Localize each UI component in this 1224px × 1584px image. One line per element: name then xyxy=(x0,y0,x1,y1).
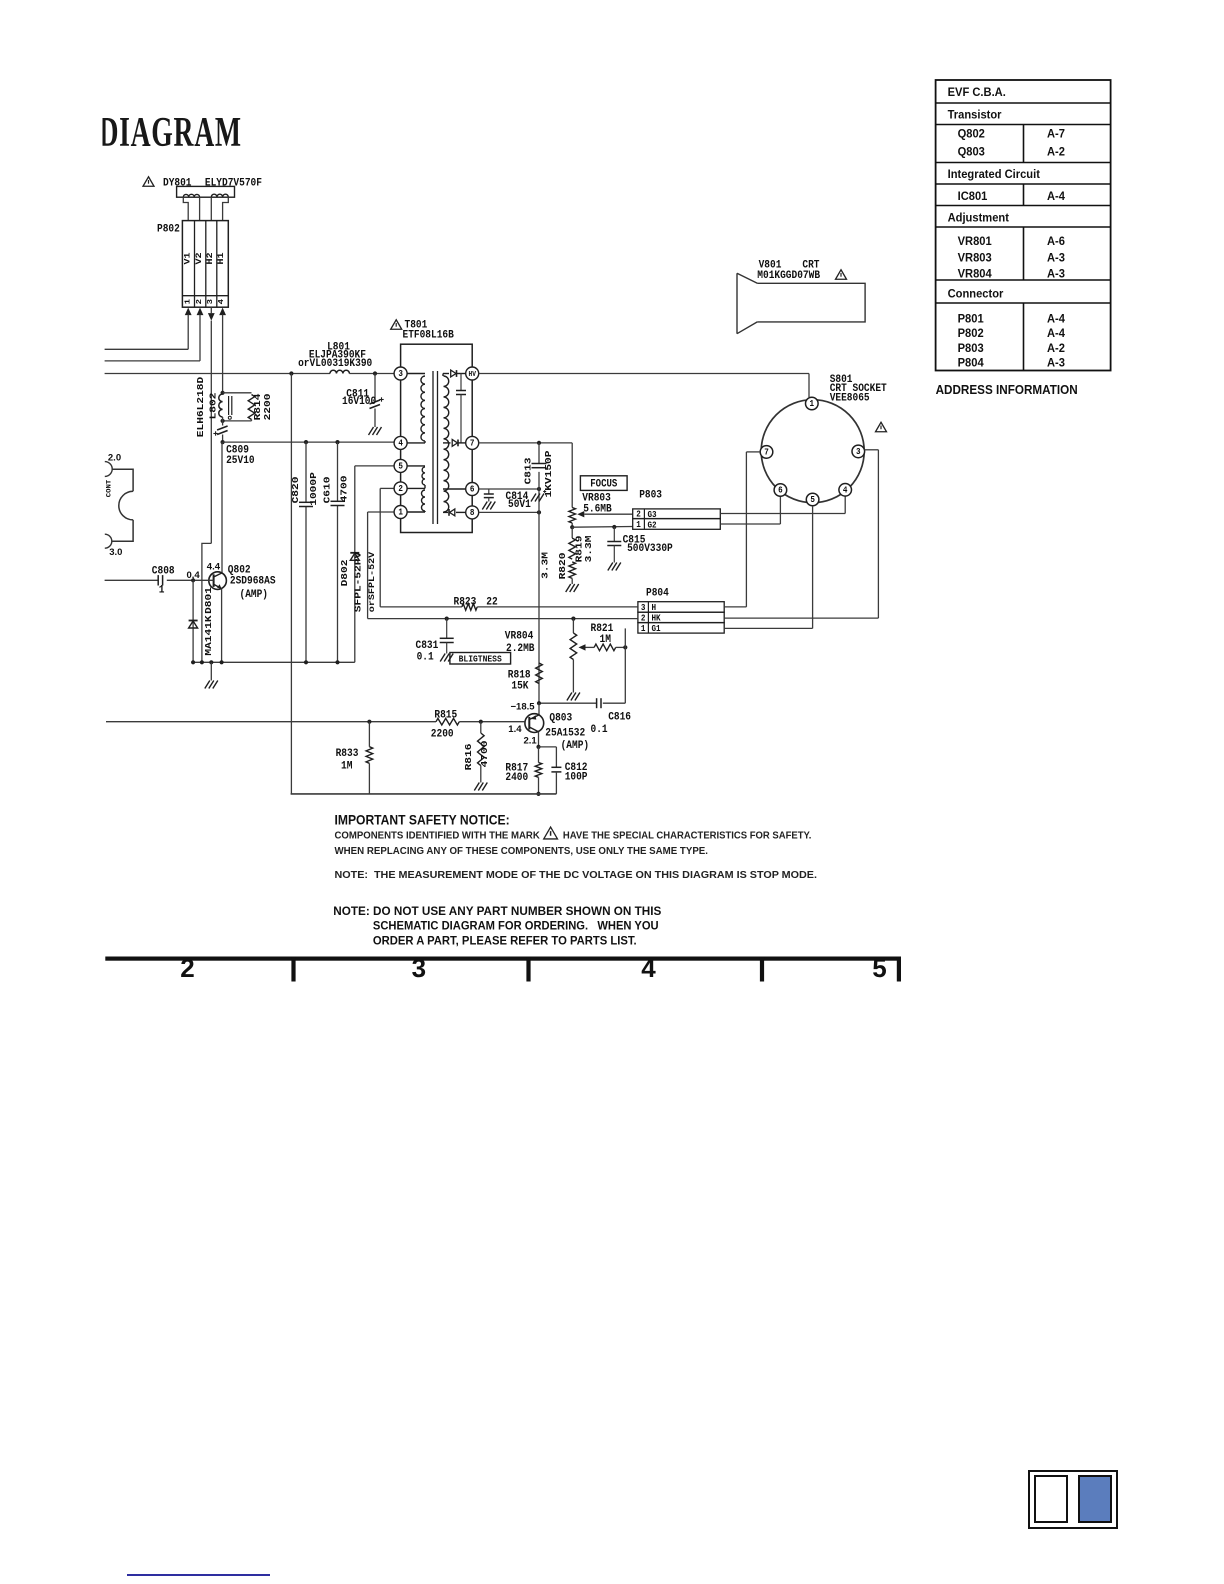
svg-text:NOTE: THE MEASUREMENT MODE OF: NOTE: THE MEASUREMENT MODE OF THE DC VOL… xyxy=(335,869,818,881)
title DIAGRAM xyxy=(94,108,242,155)
svg-text:0.1: 0.1 xyxy=(591,723,608,736)
wire P802 pin3 (H2) xyxy=(210,307,212,313)
svg-text:P803: P803 xyxy=(639,489,662,502)
svg-text:Transistor: Transistor xyxy=(948,109,1002,121)
wire P802 pin4 (H1) xyxy=(219,308,226,316)
svg-text:1: 1 xyxy=(810,400,815,410)
svg-text:G2: G2 xyxy=(648,521,657,531)
svg-text:C820: C820 xyxy=(291,477,302,504)
svg-text:16V100: 16V100 xyxy=(342,396,376,409)
svg-text:EVF C.B.A.: EVF C.B.A. xyxy=(948,87,1006,99)
wire VR803 bottom xyxy=(571,523,573,527)
T801 pin 4 xyxy=(394,436,407,449)
svg-text:3.3M: 3.3M xyxy=(540,552,551,579)
svg-text:2200: 2200 xyxy=(263,394,274,421)
socket pin 7 xyxy=(760,446,773,459)
wire C816 line xyxy=(539,702,597,704)
svg-text:C610: C610 xyxy=(322,477,333,504)
capacitor C811 electrolytic xyxy=(370,400,381,404)
page indicator outer box xyxy=(1028,1470,1118,1529)
svg-text:H: H xyxy=(652,604,657,614)
svg-text:WHEN REPLACING ANY OF THESE CO: WHEN REPLACING ANY OF THESE COMPONENTS, … xyxy=(335,846,709,857)
ruler end tick xyxy=(897,957,901,982)
svg-text:1000P: 1000P xyxy=(309,472,320,506)
svg-text:1.4: 1.4 xyxy=(508,724,522,735)
ruler bar xyxy=(105,957,901,961)
svg-text:25A1532: 25A1532 xyxy=(545,727,585,740)
svg-text:R815: R815 xyxy=(434,709,457,722)
svg-text:4: 4 xyxy=(641,953,656,983)
wire H1 to L802 xyxy=(222,374,224,393)
ground (VR804) xyxy=(567,693,572,701)
svg-text:P803: P803 xyxy=(958,342,985,354)
svg-text:A-6: A-6 xyxy=(1047,236,1066,248)
svg-text:1M: 1M xyxy=(600,634,611,647)
junction bus/down-line xyxy=(289,371,293,375)
wire collector to C812 xyxy=(539,746,557,748)
resistor R821 xyxy=(594,644,616,651)
svg-text:4: 4 xyxy=(398,439,403,449)
wire T801 pin5 line xyxy=(355,465,394,467)
svg-text:2: 2 xyxy=(636,510,641,520)
svg-text:VR803: VR803 xyxy=(958,252,993,264)
socket pin 5 xyxy=(806,493,819,506)
svg-text:8: 8 xyxy=(470,509,475,519)
svg-text:P804: P804 xyxy=(958,357,985,369)
wire P802 pin1 xyxy=(185,308,192,316)
svg-text:2: 2 xyxy=(195,299,203,304)
svg-text:H1: H1 xyxy=(216,252,226,265)
svg-text:Adjustment: Adjustment xyxy=(948,212,1009,224)
CRT V801 outline xyxy=(737,273,865,333)
svg-text:IMPORTANT SAFETY NOTICE:: IMPORTANT SAFETY NOTICE: xyxy=(335,812,510,828)
potentiometer VR804 xyxy=(572,619,574,633)
svg-text:A-3: A-3 xyxy=(1047,268,1066,280)
wire G1-R821-C816 vertical xyxy=(624,628,626,703)
wire pin7 line xyxy=(479,442,573,444)
svg-text:H2: H2 xyxy=(205,252,215,265)
diode D802 xyxy=(350,552,359,554)
svg-text:Connector: Connector xyxy=(948,288,1004,300)
svg-text:2400: 2400 xyxy=(505,771,528,784)
wire Q803 base (R815 line) xyxy=(106,721,436,723)
svg-text:A-2: A-2 xyxy=(1047,146,1065,158)
inductor L802 xyxy=(219,394,223,417)
T801 pin8 diode xyxy=(443,511,448,513)
transformer T801 box xyxy=(401,344,473,532)
svg-text:VR804: VR804 xyxy=(958,268,993,280)
svg-text:4700: 4700 xyxy=(480,741,491,768)
wire Q803 emitter xyxy=(538,703,540,715)
capacitor C820 xyxy=(305,442,307,502)
capacitor C816 xyxy=(596,698,598,708)
T801 secondary winding xyxy=(444,376,449,512)
wire bus to bottom rail xyxy=(290,374,292,794)
svg-text:R833: R833 xyxy=(336,747,359,760)
svg-text:HK: HK xyxy=(652,614,661,624)
ground (mid rail) xyxy=(210,662,212,680)
connector P803 xyxy=(633,509,721,519)
svg-text:ELYD7V570F: ELYD7V570F xyxy=(205,177,262,190)
footer blue rule xyxy=(127,1574,270,1576)
wire T801 pin1 line xyxy=(368,511,395,513)
yoke leg pin1 xyxy=(183,197,188,220)
wire G3 to pin4 xyxy=(720,513,845,515)
svg-text:R823: R823 xyxy=(454,596,477,609)
svg-text:COMPONENTS IDENTIFIED WITH THE: COMPONENTS IDENTIFIED WITH THE MARK xyxy=(335,830,541,841)
wire G1 to pin5 xyxy=(724,627,812,629)
deflection yoke DY801 box xyxy=(177,186,235,197)
wire P802 pin2 xyxy=(197,308,204,316)
svg-text:orVL00319K390: orVL00319K390 xyxy=(298,358,372,371)
ruler tick xyxy=(291,957,295,982)
svg-text:2: 2 xyxy=(641,614,646,624)
svg-text:A-2: A-2 xyxy=(1047,342,1065,354)
resistor R816 xyxy=(480,722,482,733)
svg-text:Q803: Q803 xyxy=(549,712,572,725)
resistor R817 xyxy=(538,747,540,763)
ground mark (C813) xyxy=(531,494,536,502)
svg-text:4: 4 xyxy=(843,486,848,496)
BLIGTNESS box xyxy=(450,653,511,665)
svg-text:P804: P804 xyxy=(646,587,669,600)
svg-text:5: 5 xyxy=(872,953,886,983)
CRT socket S801 xyxy=(761,400,864,503)
wire HK line xyxy=(368,618,638,620)
wire G2 to pin6 xyxy=(720,523,780,525)
svg-text:MA141K: MA141K xyxy=(203,615,214,656)
VR803 wiper arrow xyxy=(577,511,584,517)
capacitor C808 xyxy=(157,575,159,585)
socket pin 6 xyxy=(774,484,787,497)
svg-text:1M: 1M xyxy=(341,760,352,773)
capacitor C610 xyxy=(337,442,339,501)
svg-text:ORDER A PART, PLEASE REFER TO: ORDER A PART, PLEASE REFER TO PARTS LIST… xyxy=(373,935,637,947)
svg-text:1: 1 xyxy=(159,584,165,597)
svg-text:VR804: VR804 xyxy=(505,630,534,643)
svg-text:VEE8065: VEE8065 xyxy=(830,392,870,405)
svg-text:A-4: A-4 xyxy=(1047,191,1066,203)
svg-text:2.1: 2.1 xyxy=(524,735,538,746)
svg-text:BLIGTNESS: BLIGTNESS xyxy=(459,654,502,665)
svg-text:R816: R816 xyxy=(464,744,475,771)
wire pin7 to VR803 xyxy=(571,443,573,508)
IC801 partial outline xyxy=(105,462,112,477)
wire Q802 emitter xyxy=(221,589,223,663)
svg-text:D801: D801 xyxy=(203,587,214,614)
capacitor C831 xyxy=(446,619,448,639)
svg-text:HAVE THE SPECIAL CHARACTERISTI: HAVE THE SPECIAL CHARACTERISTICS FOR SAF… xyxy=(563,830,812,842)
svg-text:2: 2 xyxy=(180,953,194,983)
resistor R815 xyxy=(436,718,459,725)
svg-text:3: 3 xyxy=(641,603,646,613)
svg-text:G1: G1 xyxy=(652,625,661,635)
svg-text:A-7: A-7 xyxy=(1047,128,1065,140)
VR804 wiper arrow xyxy=(579,644,586,650)
svg-text:0,4: 0,4 xyxy=(187,570,201,581)
T801 pin6 tap xyxy=(443,488,466,490)
svg-text:50V1: 50V1 xyxy=(508,498,531,511)
transistor Q802 xyxy=(209,572,227,590)
svg-text:(AMP): (AMP) xyxy=(240,588,269,601)
svg-text:VR801: VR801 xyxy=(958,236,993,248)
T801 primary winding C xyxy=(422,490,426,511)
svg-text:1: 1 xyxy=(398,508,403,518)
svg-text:(AMP): (AMP) xyxy=(561,739,590,752)
svg-text:C816: C816 xyxy=(608,711,631,724)
potentiometer VR803 xyxy=(569,508,576,524)
svg-text:500V330P: 500V330P xyxy=(627,542,673,555)
svg-text:P802: P802 xyxy=(157,223,180,236)
svg-text:3.3M: 3.3M xyxy=(584,536,595,563)
svg-text:25V10: 25V10 xyxy=(226,454,255,467)
svg-text:6: 6 xyxy=(778,486,783,496)
svg-text:FOCUS: FOCUS xyxy=(590,478,617,490)
wire main bus xyxy=(105,373,330,375)
svg-text:100P: 100P xyxy=(565,771,588,784)
svg-text:SFPL-52PV: SFPL-52PV xyxy=(353,551,364,612)
svg-text:A-4: A-4 xyxy=(1047,313,1066,325)
T801 pin 3 xyxy=(394,367,407,380)
svg-text:2200: 2200 xyxy=(431,728,454,741)
svg-text:3: 3 xyxy=(412,953,426,983)
svg-text:V1: V1 xyxy=(182,252,192,265)
wire collector line xyxy=(221,442,223,573)
svg-text:R820: R820 xyxy=(558,553,569,580)
wire bus to C811 xyxy=(374,374,376,401)
wire mid rail xyxy=(193,661,355,663)
wire G2 link xyxy=(572,526,633,529)
socket pin 1 xyxy=(806,397,819,410)
ruler tick xyxy=(526,957,530,982)
svg-text:A-3: A-3 xyxy=(1047,357,1066,369)
svg-text:P802: P802 xyxy=(958,328,984,340)
svg-text:5.6MB: 5.6MB xyxy=(583,503,612,516)
svg-text:A-3: A-3 xyxy=(1047,252,1066,264)
svg-text:P801: P801 xyxy=(958,313,985,325)
svg-text:4700: 4700 xyxy=(339,476,350,503)
wire pin6 line xyxy=(479,488,539,490)
svg-text:SCHEMATIC DIAGRAM FOR ORDERING: SCHEMATIC DIAGRAM FOR ORDERING. WHEN YOU xyxy=(373,920,659,932)
T801 internal capacitor xyxy=(460,374,462,391)
wire H to pin7 xyxy=(724,606,746,608)
wire node line 539 xyxy=(538,443,540,464)
junction bus/C811 xyxy=(373,371,377,375)
wire T801 pin2 line xyxy=(380,487,394,489)
capacitor C815 xyxy=(613,527,615,542)
svg-text:ELH6L218D: ELH6L218D xyxy=(196,377,207,437)
ground (R820) xyxy=(566,584,571,592)
yoke leg pin3 xyxy=(210,197,212,220)
svg-text:0.1: 0.1 xyxy=(417,651,434,664)
wire HV to socket pin1 xyxy=(479,373,809,375)
svg-text:CONT: CONT xyxy=(106,480,113,497)
resistor R819 xyxy=(571,527,573,538)
svg-text:IC801: IC801 xyxy=(958,191,988,203)
svg-text:5: 5 xyxy=(810,496,815,506)
capacitor C813 xyxy=(532,463,547,465)
T801 pin 2 xyxy=(394,482,407,495)
svg-text:7: 7 xyxy=(764,448,769,458)
T801 HV diode xyxy=(443,373,449,375)
ground (R816) xyxy=(474,783,479,791)
wire R823 line xyxy=(380,606,462,608)
svg-text:C813: C813 xyxy=(523,458,534,485)
svg-text:C808: C808 xyxy=(152,565,175,578)
svg-text:NOTE: DO NOT USE ANY PART NUMB: NOTE: DO NOT USE ANY PART NUMBER SHOWN O… xyxy=(333,905,661,918)
svg-text:−18.5: −18.5 xyxy=(511,701,536,712)
ruler tick xyxy=(760,957,764,982)
svg-text:2.2MB: 2.2MB xyxy=(506,642,535,655)
ground (C811) xyxy=(369,427,374,435)
page indicator left square xyxy=(1034,1475,1068,1523)
svg-text:4: 4 xyxy=(218,299,226,304)
T801 pin HV xyxy=(466,367,479,380)
socket pin 4 xyxy=(839,484,852,497)
resistor R833 xyxy=(368,722,370,747)
yoke coil left xyxy=(183,194,199,197)
warning triangle (socket) xyxy=(876,422,887,432)
svg-text:M01KGGD07WB: M01KGGD07WB xyxy=(757,269,820,282)
svg-text:4.4: 4.4 xyxy=(207,562,221,573)
wire T801 pin4 line xyxy=(223,441,395,443)
wire HK to pin3 xyxy=(724,617,878,619)
yoke leg pin2 xyxy=(199,197,201,220)
svg-text:ADDRESS INFORMATION: ADDRESS INFORMATION xyxy=(936,382,1078,397)
T801 core xyxy=(432,371,434,524)
T801 primary winding B xyxy=(407,465,425,467)
svg-text:Integrated Circuit: Integrated Circuit xyxy=(948,169,1040,181)
svg-text:ETF08L16B: ETF08L16B xyxy=(403,329,455,342)
connector P804 xyxy=(638,602,724,613)
FOCUS box xyxy=(580,476,627,491)
resistor R814 xyxy=(248,395,255,420)
resistor R820 xyxy=(569,562,576,579)
wire bottom rail xyxy=(291,793,557,795)
inductor L801 xyxy=(330,370,349,373)
T801 primary winding A xyxy=(407,373,425,375)
warning triangle (DY801) xyxy=(143,177,154,187)
svg-text:22: 22 xyxy=(486,596,497,609)
svg-text:1: 1 xyxy=(636,521,641,531)
svg-text:6: 6 xyxy=(470,485,475,495)
resistor R818 xyxy=(536,663,543,684)
wire L802 bottom to R814 xyxy=(223,420,252,422)
socket pin 3 xyxy=(852,445,865,458)
svg-text:2.0: 2.0 xyxy=(108,453,121,464)
svg-text:D802: D802 xyxy=(340,560,351,587)
T801 pin7 diode xyxy=(443,442,451,444)
svg-text:5: 5 xyxy=(398,462,403,472)
page indicator right square (blue) xyxy=(1078,1475,1112,1523)
svg-text:1: 1 xyxy=(184,299,192,304)
T801 pin 8 xyxy=(466,506,479,519)
svg-text:HV: HV xyxy=(468,371,476,380)
T801 pin 6 xyxy=(466,483,479,496)
svg-text:2SD968AS: 2SD968AS xyxy=(230,575,276,588)
svg-text:V2: V2 xyxy=(193,252,203,265)
svg-text:Q802: Q802 xyxy=(958,128,985,140)
diode D801 xyxy=(192,580,194,662)
svg-text:2: 2 xyxy=(398,485,403,495)
transistor Q803 xyxy=(525,714,544,733)
svg-text:3: 3 xyxy=(856,448,861,458)
svg-text:L802: L802 xyxy=(208,393,219,420)
svg-text:DIAGRAM: DIAGRAM xyxy=(99,108,242,155)
EVF C.B.A. table xyxy=(936,80,1111,371)
yoke coil right xyxy=(211,194,228,197)
wire L802 top to R814 xyxy=(223,392,252,394)
warning triangle (V801) xyxy=(836,270,847,280)
warning triangle (T801) xyxy=(391,320,402,330)
wire Q802 base xyxy=(105,579,159,581)
connector P802 xyxy=(182,221,228,308)
yoke leg pin4 xyxy=(223,197,229,220)
svg-text:1: 1 xyxy=(641,624,646,634)
T801 pin 5 xyxy=(394,459,407,472)
capacitor C814 xyxy=(488,489,490,494)
resistor R823 xyxy=(462,604,477,611)
svg-text:3: 3 xyxy=(206,299,214,304)
svg-text:7: 7 xyxy=(470,439,475,449)
T801 pin 1 xyxy=(394,506,407,519)
svg-text:G3: G3 xyxy=(648,510,657,520)
svg-text:A-4: A-4 xyxy=(1047,328,1066,340)
T801 pin 7 xyxy=(466,436,479,449)
svg-text:3.0: 3.0 xyxy=(109,547,122,558)
wire Q803 collector xyxy=(538,732,540,747)
svg-text:Q803: Q803 xyxy=(958,146,986,158)
svg-text:3: 3 xyxy=(398,370,403,380)
capacitor C809 electrolytic xyxy=(217,426,228,430)
wire pin8 line xyxy=(479,511,539,513)
svg-text:15K: 15K xyxy=(511,680,529,693)
capacitor C812 xyxy=(551,766,561,768)
